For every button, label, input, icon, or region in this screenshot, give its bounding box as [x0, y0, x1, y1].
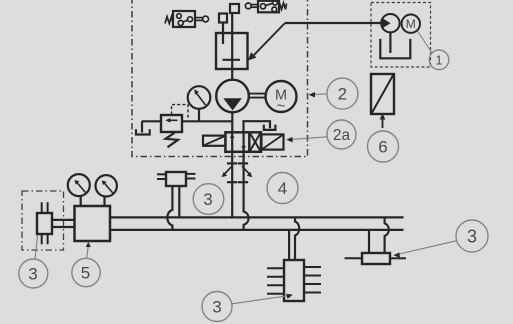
svg-text:3: 3 — [203, 190, 212, 209]
svg-text:M: M — [406, 17, 416, 31]
svg-text:5: 5 — [81, 264, 90, 283]
svg-text:~: ~ — [277, 98, 286, 115]
svg-text:4: 4 — [278, 179, 287, 198]
svg-text:2: 2 — [338, 85, 347, 104]
svg-text:3: 3 — [212, 298, 221, 317]
svg-text:6: 6 — [378, 138, 387, 157]
svg-text:3: 3 — [467, 226, 477, 246]
svg-text:3: 3 — [28, 265, 37, 284]
svg-text:1: 1 — [436, 53, 443, 67]
svg-text:2a: 2a — [333, 127, 351, 144]
